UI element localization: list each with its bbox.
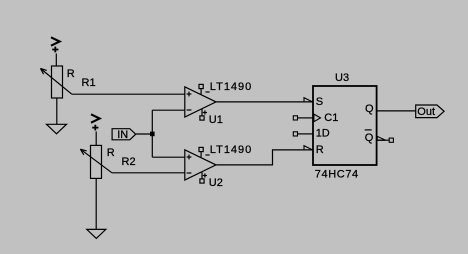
svg-text:Out: Out (417, 106, 435, 118)
junction (150, 132, 155, 137)
svg-text:LT1490: LT1490 (210, 81, 253, 93)
svg-text:R: R (107, 147, 115, 159)
stub C1 (298, 117, 314, 119)
wire IN to junction (136, 133, 153, 135)
pin arrow R (304, 146, 313, 150)
wire P1 to R1 (55, 54, 57, 67)
svg-text:U2: U2 (209, 177, 223, 189)
svg-text:Q: Q (365, 132, 374, 144)
flip-flop U3 box (313, 86, 377, 165)
svg-text:R: R (316, 144, 324, 156)
svg-text:IN: IN (117, 129, 128, 141)
power V+ P1 (51, 37, 60, 52)
op-amp U1 (185, 84, 216, 120)
svg-text:R2: R2 (122, 156, 136, 168)
wire junction vertical (151, 110, 153, 157)
svg-text:R: R (67, 68, 75, 80)
wire U2 out to R (216, 150, 313, 165)
potentiometer R2 (80, 145, 112, 178)
svg-text:U1: U1 (209, 114, 223, 126)
wire Q to Out (377, 110, 416, 112)
svg-text:LT1490: LT1490 (210, 144, 253, 156)
stub 1D (298, 133, 314, 135)
svg-text:74HC74: 74HC74 (315, 169, 359, 181)
wire U1 out to S (216, 101, 313, 103)
wire to U2 + (152, 156, 185, 158)
svg-text:R1: R1 (82, 77, 96, 89)
ground G1 (47, 98, 67, 134)
wire to U1 - (152, 109, 185, 111)
square 1D (293, 132, 297, 136)
ground G2 (87, 178, 106, 238)
svg-text:S: S (316, 96, 323, 108)
wire P2 to R2 (95, 132, 97, 146)
clock wedge (314, 114, 321, 122)
svg-text:U3: U3 (335, 72, 349, 84)
square C1 (293, 116, 297, 120)
svg-text:1D: 1D (316, 128, 330, 140)
net flag Out (416, 105, 444, 118)
svg-text:Q: Q (365, 103, 374, 115)
net flag IN (112, 129, 136, 140)
power V+ P2 (91, 114, 100, 130)
svg-text:C1: C1 (324, 112, 338, 124)
potentiometer R1 (41, 66, 72, 98)
stub Qbar (377, 139, 389, 141)
pin arrow Qbar (377, 136, 385, 140)
wire R1 wiper to U1 + (72, 93, 185, 95)
wire R2 wiper to U2 - (112, 172, 185, 174)
square Qbar (389, 138, 393, 142)
op-amp U2 (185, 147, 216, 183)
pin arrow S (304, 98, 313, 102)
